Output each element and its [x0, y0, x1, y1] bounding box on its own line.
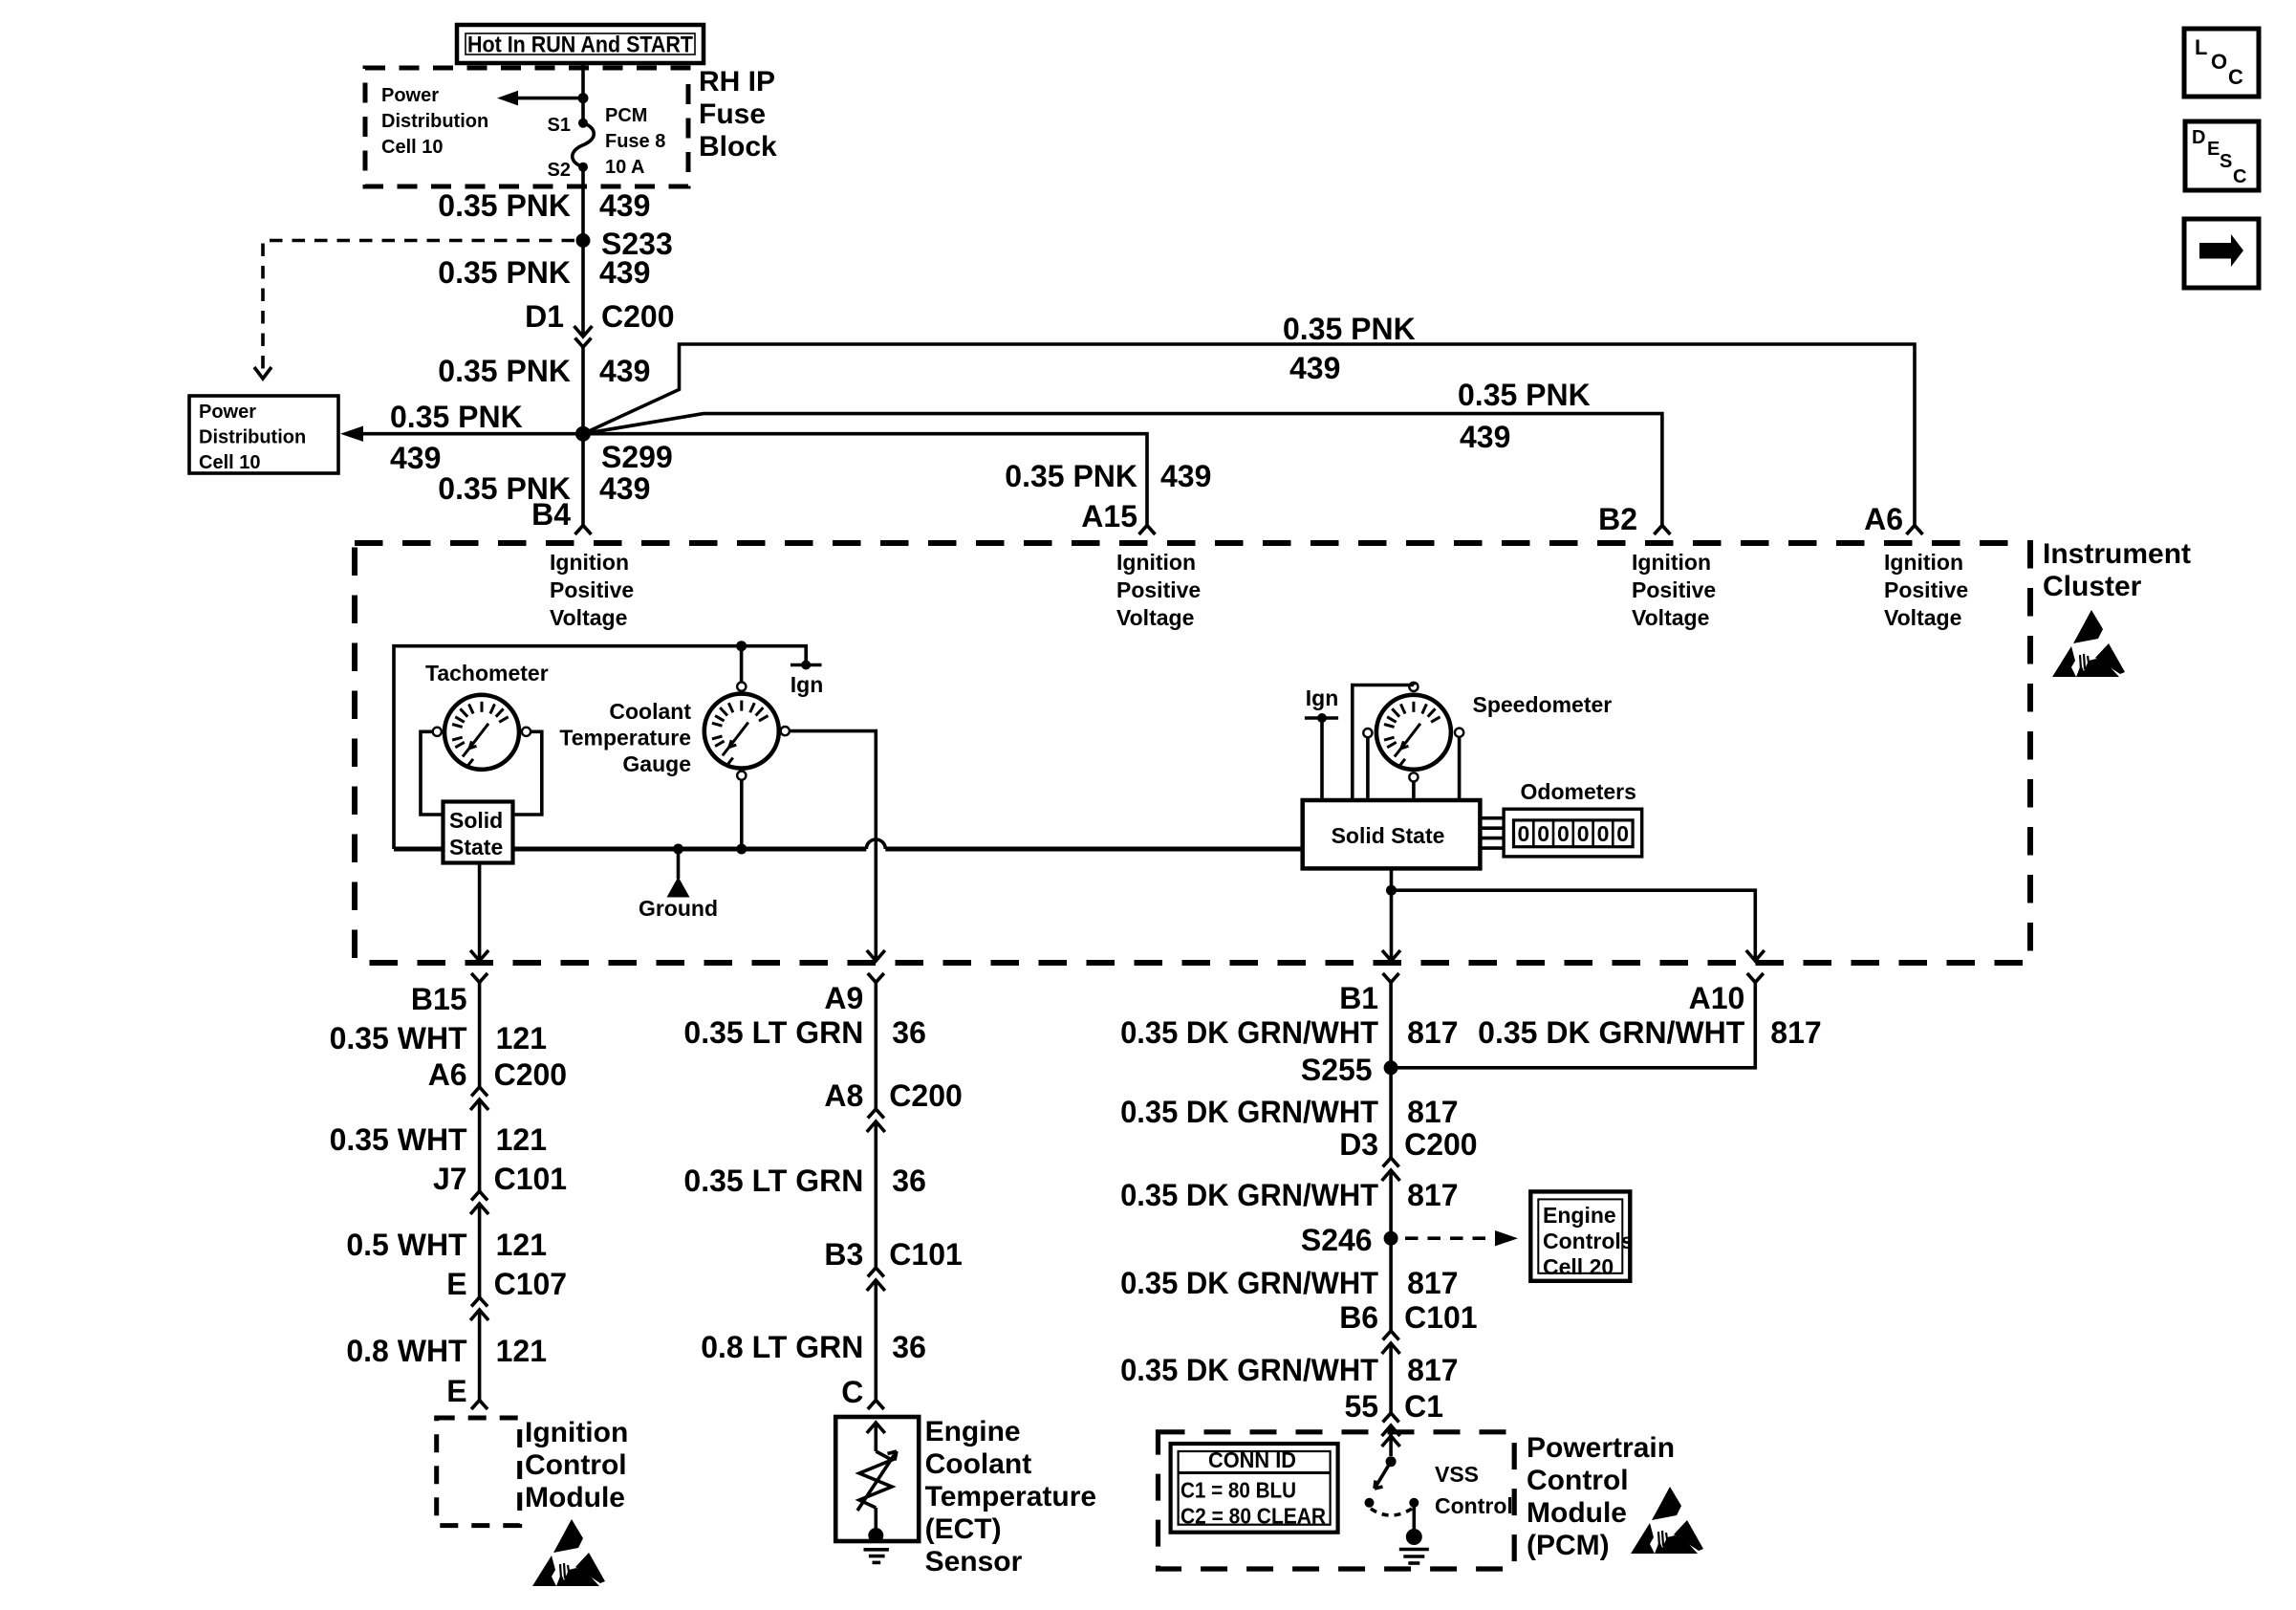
svg-text:Cluster: Cluster	[2043, 571, 2142, 602]
VSS control switch (PCM internal)	[1365, 1425, 1419, 1515]
svg-text:Module: Module	[525, 1482, 625, 1513]
component: Odometers counter	[1504, 809, 1642, 857]
svg-text:Odometers: Odometers	[1521, 779, 1636, 804]
label: Power Distribution Cell 10 (fuse block)	[381, 85, 488, 158]
ESD symbol (Ignition Control Module)	[532, 1519, 605, 1586]
svg-text:O: O	[2211, 50, 2227, 74]
svg-text:36: 36	[892, 1015, 926, 1050]
svg-text:E: E	[446, 1267, 466, 1301]
svg-text:Module: Module	[1527, 1497, 1627, 1529]
wire: speedo top terminal loop	[1353, 683, 1414, 800]
svg-text:D1: D1	[525, 299, 564, 334]
svg-text:439: 439	[1289, 351, 1340, 385]
svg-text:L: L	[2195, 35, 2207, 59]
wire: speedo bottom terminal down	[1412, 782, 1416, 801]
svg-text:0.35 PNK: 0.35 PNK	[1458, 378, 1591, 412]
svg-text:817: 817	[1407, 1353, 1458, 1387]
svg-text:Coolant: Coolant	[925, 1448, 1032, 1480]
label 0.35 WHT 121	[330, 1021, 547, 1055]
label: VSS Control	[1435, 1462, 1513, 1518]
gauge: Coolant Temperature Gauge	[704, 694, 779, 769]
component box: ECT sensor	[835, 1417, 919, 1541]
wire: tap to coolant gauge	[740, 646, 744, 683]
node label: Ignition Positive Voltage (B2)	[1632, 550, 1716, 630]
svg-text:0.35 WHT: 0.35 WHT	[330, 1122, 467, 1157]
svg-text:0.35 PNK: 0.35 PNK	[438, 188, 571, 223]
component box: Solid State (speedometer)	[1303, 800, 1481, 868]
svg-text:S255: S255	[1301, 1053, 1373, 1087]
svg-text:D3: D3	[1339, 1127, 1378, 1162]
connector C1 pin 55	[1345, 1389, 1444, 1424]
wire 439: S299 branch to A6 (top)	[583, 344, 1923, 534]
wire 121: C200 to C101	[478, 1099, 482, 1191]
connector C101 pin B3	[824, 1237, 962, 1272]
svg-text:Ign: Ign	[791, 672, 824, 697]
svg-text:Gauge: Gauge	[622, 751, 691, 776]
svg-text:A6: A6	[428, 1057, 467, 1092]
svg-text:0: 0	[1616, 821, 1629, 846]
Ign terminal (speedometer)	[1305, 713, 1338, 723]
svg-text:439: 439	[599, 255, 650, 290]
svg-text:C101: C101	[494, 1162, 568, 1196]
svg-text:C: C	[841, 1375, 863, 1409]
label 0.8 WHT 121	[346, 1334, 547, 1368]
label 0.35 DK GRN/WHT 817	[1120, 1095, 1458, 1129]
component box: Ignition Control Module (dashed)	[437, 1418, 520, 1526]
node: feed junction	[578, 93, 589, 103]
svg-text:Instrument: Instrument	[2043, 538, 2191, 570]
dashed wire: S233 to Power Distribution Cell 10	[254, 241, 574, 380]
wire: coolant gauge to A9	[790, 731, 876, 959]
svg-text:0: 0	[1537, 821, 1549, 846]
connector symbol C101 (B6)	[1382, 1331, 1400, 1354]
wire 121: B15 to C200	[478, 983, 482, 1088]
svg-text:Power: Power	[381, 85, 439, 106]
wire 817: B1 to S255	[1389, 983, 1393, 1068]
pin A10	[1689, 973, 1764, 1015]
svg-text:A10: A10	[1689, 981, 1745, 1015]
svg-text:Tachometer: Tachometer	[425, 661, 549, 685]
svg-text:0.5 WHT: 0.5 WHT	[346, 1228, 467, 1262]
label: PCM Fuse 8 10 A	[605, 105, 665, 178]
node S233	[576, 227, 673, 261]
svg-text:121: 121	[496, 1334, 547, 1368]
svg-text:S2: S2	[548, 160, 571, 181]
label 0.35 WHT 121	[330, 1122, 547, 1157]
svg-text:Ignition: Ignition	[525, 1417, 628, 1448]
svg-text:0.35 PNK: 0.35 PNK	[1005, 459, 1137, 493]
label: RH IP Fuse Block	[699, 66, 777, 163]
svg-text:0.35 DK GRN/WHT: 0.35 DK GRN/WHT	[1478, 1015, 1745, 1050]
svg-text:Engine: Engine	[925, 1416, 1021, 1447]
svg-text:Positive: Positive	[1632, 577, 1716, 602]
svg-text:C1 = 80 BLU: C1 = 80 BLU	[1180, 1478, 1296, 1503]
label 0.35 PNK 439 (B2 branch)	[1458, 378, 1591, 454]
svg-text:C101: C101	[1404, 1300, 1478, 1335]
connector symbol C200 (D3)	[1382, 1158, 1400, 1181]
svg-text:121: 121	[496, 1021, 547, 1055]
label 0.35 DK GRN/WHT 817	[1120, 1353, 1458, 1387]
label 0.35 DK GRN/WHT 817 (A10)	[1478, 1015, 1822, 1050]
connector C101 pin B6	[1339, 1300, 1477, 1335]
svg-text:(PCM): (PCM)	[1527, 1530, 1610, 1561]
svg-text:Fuse: Fuse	[699, 98, 766, 130]
svg-text:C: C	[2233, 166, 2246, 187]
label 0.35 PNK 439 (A15 branch)	[1005, 459, 1211, 493]
wire: junction to A10	[1392, 890, 1756, 959]
svg-text:817: 817	[1407, 1015, 1458, 1050]
svg-text:A15: A15	[1081, 499, 1137, 533]
svg-text:Engine: Engine	[1543, 1203, 1616, 1228]
svg-text:Solid State: Solid State	[1332, 823, 1445, 848]
svg-text:Positive: Positive	[1884, 577, 1968, 602]
svg-text:Distribution: Distribution	[199, 427, 306, 448]
wire: tach solid state to B15	[478, 862, 482, 959]
svg-text:Block: Block	[699, 131, 777, 163]
label 0.35 PNK 439	[438, 255, 650, 290]
svg-text:Cell 10: Cell 10	[381, 137, 443, 158]
svg-text:0: 0	[1577, 821, 1590, 846]
svg-text:0.35 PNK: 0.35 PNK	[1283, 312, 1416, 346]
svg-text:VSS: VSS	[1435, 1462, 1479, 1487]
svg-text:D: D	[2192, 127, 2205, 148]
svg-text:0.35 DK GRN/WHT: 0.35 DK GRN/WHT	[1120, 1178, 1378, 1212]
connector symbol C200 (A6)	[470, 1087, 488, 1110]
wire 36: A9 to C200	[874, 983, 877, 1110]
svg-text:817: 817	[1407, 1095, 1458, 1129]
odometer drive lines	[1480, 818, 1504, 848]
label 0.35 PNK 439 (A6 branch)	[1283, 312, 1416, 385]
pin A15	[1081, 499, 1137, 533]
pin A9	[824, 973, 883, 1015]
label: Coolant Temperature Gauge	[559, 699, 691, 776]
svg-text:B1: B1	[1339, 981, 1378, 1015]
node: ground tap	[673, 844, 683, 855]
svg-text:C101: C101	[889, 1237, 963, 1272]
connector C200 pin A8	[824, 1078, 962, 1113]
svg-text:0.35 LT GRN: 0.35 LT GRN	[683, 1015, 863, 1050]
svg-text:B6: B6	[1339, 1300, 1378, 1335]
icon: LOC box	[2184, 29, 2259, 97]
wire 36: C200 to C101	[874, 1121, 877, 1268]
svg-text:121: 121	[496, 1228, 547, 1262]
svg-text:Distribution: Distribution	[381, 111, 488, 132]
svg-text:Solid: Solid	[449, 808, 503, 833]
svg-text:A8: A8	[824, 1078, 863, 1113]
svg-text:Voltage: Voltage	[1884, 605, 1961, 630]
ESD symbol (Instrument Cluster)	[2052, 610, 2125, 677]
svg-text:Control: Control	[1435, 1493, 1513, 1518]
svg-text:S246: S246	[1301, 1223, 1373, 1257]
label 0.35 PNK 439	[438, 188, 650, 223]
svg-text:Positive: Positive	[550, 577, 634, 602]
node S299	[575, 426, 673, 474]
pin B1	[1339, 973, 1398, 1015]
node S246	[1301, 1223, 1398, 1257]
label: Ignition Control Module	[525, 1417, 628, 1513]
svg-text:439: 439	[599, 188, 650, 223]
svg-text:(ECT): (ECT)	[925, 1513, 1002, 1545]
power feed box: Hot In RUN And START	[457, 25, 704, 63]
svg-text:817: 817	[1770, 1015, 1821, 1050]
wire 817: S246 to C101	[1389, 1238, 1393, 1331]
svg-text:Power: Power	[199, 402, 256, 423]
Instrument Cluster dashed box	[355, 543, 2030, 963]
wire 817: A10 to S255	[1391, 983, 1755, 1068]
wire: ground bus	[394, 839, 1303, 849]
wire 817: S255 to C200	[1389, 1068, 1393, 1158]
svg-text:A9: A9	[824, 981, 863, 1015]
svg-text:0: 0	[1597, 821, 1610, 846]
svg-text:PCM: PCM	[605, 105, 647, 126]
wire 121: C101 to C107	[478, 1204, 482, 1297]
connector symbol C200 (A8)	[867, 1109, 885, 1132]
wire 439: S299 down to B4	[575, 434, 592, 534]
wire 36: C101 to ECT sensor	[874, 1280, 877, 1400]
connector C101 pin J7	[433, 1162, 567, 1196]
Ign terminal (coolant gauge side)	[791, 661, 824, 698]
svg-text:C2 = 80 CLEAR: C2 = 80 CLEAR	[1180, 1504, 1326, 1529]
wire 439: S233 to C200	[581, 241, 585, 327]
svg-text:Voltage: Voltage	[550, 605, 627, 630]
svg-text:E: E	[2207, 139, 2220, 160]
svg-text:C: C	[2228, 65, 2243, 89]
label 0.35 DK GRN/WHT 817	[1120, 1266, 1458, 1300]
label 0.35 DK GRN/WHT 817 (B1)	[1120, 1015, 1458, 1050]
svg-text:439: 439	[599, 354, 650, 388]
wire: tach right terminal to Solid State	[515, 731, 542, 815]
svg-text:0.8 WHT: 0.8 WHT	[346, 1334, 467, 1368]
svg-text:E: E	[446, 1374, 466, 1408]
svg-text:B2: B2	[1598, 502, 1637, 536]
svg-text:439: 439	[390, 441, 441, 475]
wire 439: fuse to S233	[581, 167, 585, 240]
svg-text:439: 439	[599, 471, 650, 506]
component box: Engine Controls Cell 20	[1530, 1191, 1633, 1280]
svg-text:A6: A6	[1864, 502, 1903, 536]
ground symbol (cluster)	[639, 849, 718, 921]
connector C200 pin A6	[428, 1057, 567, 1092]
svg-text:State: State	[449, 835, 503, 859]
icon: arrow box	[2184, 219, 2259, 288]
node label: Ignition Positive Voltage (A15)	[1116, 550, 1201, 630]
node label: Ignition Positive Voltage (A6)	[1884, 550, 1968, 630]
wire: feed into fuse block	[581, 63, 585, 122]
wire: coolant gauge bottom to ground bus	[740, 780, 744, 849]
svg-text:Ign: Ign	[1306, 685, 1339, 710]
svg-text:817: 817	[1407, 1178, 1458, 1212]
wire: Ign to Solid State (speedo)	[1320, 718, 1324, 800]
label: Ign (speedometer)	[1306, 685, 1339, 710]
svg-text:J7: J7	[433, 1162, 467, 1196]
label 0.35 PNK 439	[438, 354, 650, 388]
svg-text:36: 36	[892, 1330, 926, 1364]
svg-text:817: 817	[1407, 1266, 1458, 1300]
node: coolant gauge bottom tap	[736, 844, 747, 855]
label 0.8 LT GRN 36	[701, 1330, 926, 1364]
svg-text:C200: C200	[494, 1057, 568, 1092]
node: coolant feed tap	[736, 641, 747, 651]
icon: DESC box	[2185, 121, 2259, 190]
wire 439: S299 branch to A15	[583, 434, 1156, 534]
svg-text:B15: B15	[411, 982, 467, 1016]
svg-text:439: 439	[1460, 420, 1510, 454]
svg-text:C200: C200	[1404, 1127, 1478, 1162]
connector symbol C101 (B3)	[867, 1268, 885, 1291]
connector symbol C1 (55)	[1382, 1413, 1400, 1436]
svg-text:Voltage: Voltage	[1116, 605, 1194, 630]
svg-text:Control: Control	[525, 1449, 627, 1481]
wire: speedo right terminal down	[1458, 737, 1462, 800]
svg-text:55: 55	[1345, 1389, 1379, 1424]
label: Powertrain Control Module (PCM)	[1527, 1432, 1675, 1561]
speedometer terminals	[1363, 683, 1463, 782]
connector arrows at cluster exits B15 A9 B1 A10	[470, 950, 1765, 961]
svg-text:0.35 PNK: 0.35 PNK	[390, 400, 523, 434]
svg-text:0.35 WHT: 0.35 WHT	[330, 1021, 467, 1055]
svg-text:Powertrain: Powertrain	[1527, 1432, 1675, 1464]
svg-text:0.8 LT GRN: 0.8 LT GRN	[701, 1330, 863, 1364]
svg-text:C1: C1	[1404, 1389, 1443, 1424]
connector symbol C107 (E)	[470, 1297, 488, 1320]
svg-text:Temperature: Temperature	[925, 1481, 1097, 1512]
svg-text:0: 0	[1518, 821, 1530, 846]
svg-text:S: S	[2220, 151, 2232, 172]
wire: speedo solid state to B1	[1390, 868, 1394, 959]
wire: tach left terminal to Solid State	[421, 731, 442, 815]
svg-text:Sensor: Sensor	[925, 1546, 1023, 1577]
svg-text:Speedometer: Speedometer	[1473, 692, 1613, 717]
svg-text:S1: S1	[548, 115, 571, 136]
RH IP Fuse Block dashed box	[365, 68, 688, 186]
wire 121: C107 to Ignition Control Module	[478, 1310, 482, 1400]
wire: speedo left terminal down	[1366, 737, 1370, 800]
svg-text:0.35 PNK: 0.35 PNK	[438, 255, 571, 290]
svg-text:10 A: 10 A	[605, 157, 645, 178]
wire 817: C200 to S246	[1389, 1170, 1393, 1238]
wire 817: C101 to PCM	[1389, 1343, 1393, 1413]
svg-text:0.35 DK GRN/WHT: 0.35 DK GRN/WHT	[1120, 1266, 1378, 1300]
component box: Solid State (tachometer)	[444, 802, 513, 863]
dashed wire: S246 to Engine Controls Cell 20	[1405, 1230, 1518, 1246]
wire 439: S299 branch to B2	[583, 414, 1670, 534]
component box: Power Distribution Cell 10	[189, 396, 338, 473]
label: Odometers	[1521, 779, 1636, 804]
wire arrow to Power Distribution Cell 10 (internal)	[497, 91, 583, 106]
svg-text:Coolant: Coolant	[609, 699, 691, 724]
connector C107 pin E	[446, 1267, 567, 1301]
pin S1	[548, 115, 571, 136]
node S255	[1301, 1053, 1398, 1087]
node label: Ignition Positive Voltage (B4)	[550, 550, 634, 630]
svg-text:0.35 DK GRN/WHT: 0.35 DK GRN/WHT	[1120, 1353, 1378, 1387]
svg-text:B4: B4	[531, 497, 571, 532]
svg-text:36: 36	[892, 1164, 926, 1198]
label: Engine Coolant Temperature (ECT) Sensor	[925, 1416, 1097, 1577]
wire: cluster internal feed bus (tach/coolant)	[394, 646, 806, 849]
tachometer terminals	[433, 728, 531, 736]
svg-text:121: 121	[496, 1122, 547, 1157]
svg-text:C200: C200	[601, 299, 675, 334]
svg-text:Hot In RUN And START: Hot In RUN And START	[467, 33, 693, 58]
svg-text:0.35 LT GRN: 0.35 LT GRN	[683, 1164, 863, 1198]
thermistor RT (ECT)	[857, 1423, 897, 1543]
svg-text:B3: B3	[824, 1237, 863, 1272]
pin C (ECT sensor)	[841, 1375, 884, 1409]
svg-text:Positive: Positive	[1116, 577, 1201, 602]
svg-text:CONN ID: CONN ID	[1208, 1447, 1296, 1472]
svg-text:Ignition: Ignition	[1884, 550, 1963, 575]
svg-text:0: 0	[1557, 821, 1570, 846]
pin B4	[531, 497, 571, 532]
fuse F8: PCM Fuse 8 10 A	[573, 119, 595, 172]
label 0.35 PNK 439 (B4)	[438, 471, 650, 506]
coolant gauge terminals	[737, 683, 790, 780]
ESD symbol (PCM)	[1631, 1487, 1703, 1554]
pin E (Ignition Control Module)	[446, 1374, 487, 1409]
svg-text:Controls: Controls	[1543, 1229, 1634, 1253]
svg-text:Voltage: Voltage	[1632, 605, 1709, 630]
svg-text:0.35 PNK: 0.35 PNK	[438, 354, 571, 388]
ground symbol (VSS)	[1399, 1503, 1429, 1563]
svg-text:Temperature: Temperature	[559, 726, 691, 751]
label 0.35 LT GRN 36	[683, 1164, 925, 1198]
label: Instrument Cluster	[2043, 538, 2191, 602]
connector symbol C101 (J7)	[470, 1191, 488, 1214]
svg-text:Ignition: Ignition	[550, 550, 629, 575]
gauge: Speedometer	[1376, 695, 1451, 770]
node: B1/A10 junction	[1386, 885, 1397, 896]
svg-text:C200: C200	[889, 1078, 963, 1113]
component box: Powertrain Control Module dashed	[1159, 1432, 1515, 1569]
svg-text:0.35 DK GRN/WHT: 0.35 DK GRN/WHT	[1120, 1015, 1378, 1050]
connector C200 pin D1	[525, 299, 674, 334]
svg-text:RH IP: RH IP	[699, 66, 775, 98]
pin S2	[548, 160, 571, 181]
svg-text:S299: S299	[601, 440, 673, 474]
svg-text:Fuse 8: Fuse 8	[605, 131, 665, 152]
label: Tachometer	[425, 661, 549, 685]
ground symbol (ECT)	[864, 1550, 889, 1563]
label 0.5 WHT 121	[346, 1228, 547, 1262]
svg-text:439: 439	[1160, 459, 1211, 493]
label: Speedometer	[1473, 692, 1613, 717]
CONN ID table	[1171, 1444, 1338, 1533]
svg-text:Ground: Ground	[639, 896, 718, 921]
pin B15	[411, 973, 487, 1016]
label 0.35 LT GRN 36	[683, 1015, 925, 1050]
label 0.35 DK GRN/WHT 817	[1120, 1178, 1458, 1212]
svg-text:Ignition: Ignition	[1116, 550, 1196, 575]
wire arrow: S299 to Power Distribution Cell 10	[340, 400, 583, 475]
svg-text:0.35 DK GRN/WHT: 0.35 DK GRN/WHT	[1120, 1095, 1378, 1129]
connector C200 pin D3	[1339, 1127, 1477, 1162]
svg-text:C107: C107	[494, 1267, 568, 1301]
pin B2	[1598, 502, 1637, 536]
svg-text:Control: Control	[1527, 1465, 1629, 1496]
svg-text:Cell 10: Cell 10	[199, 452, 260, 473]
wire 439: C200 to S299	[581, 347, 585, 434]
gauge: Tachometer	[444, 695, 519, 770]
svg-text:Cell 20: Cell 20	[1543, 1254, 1614, 1279]
connector symbol C200 (D1)	[574, 326, 593, 347]
svg-text:Ignition: Ignition	[1632, 550, 1711, 575]
pin A6	[1864, 502, 1903, 536]
